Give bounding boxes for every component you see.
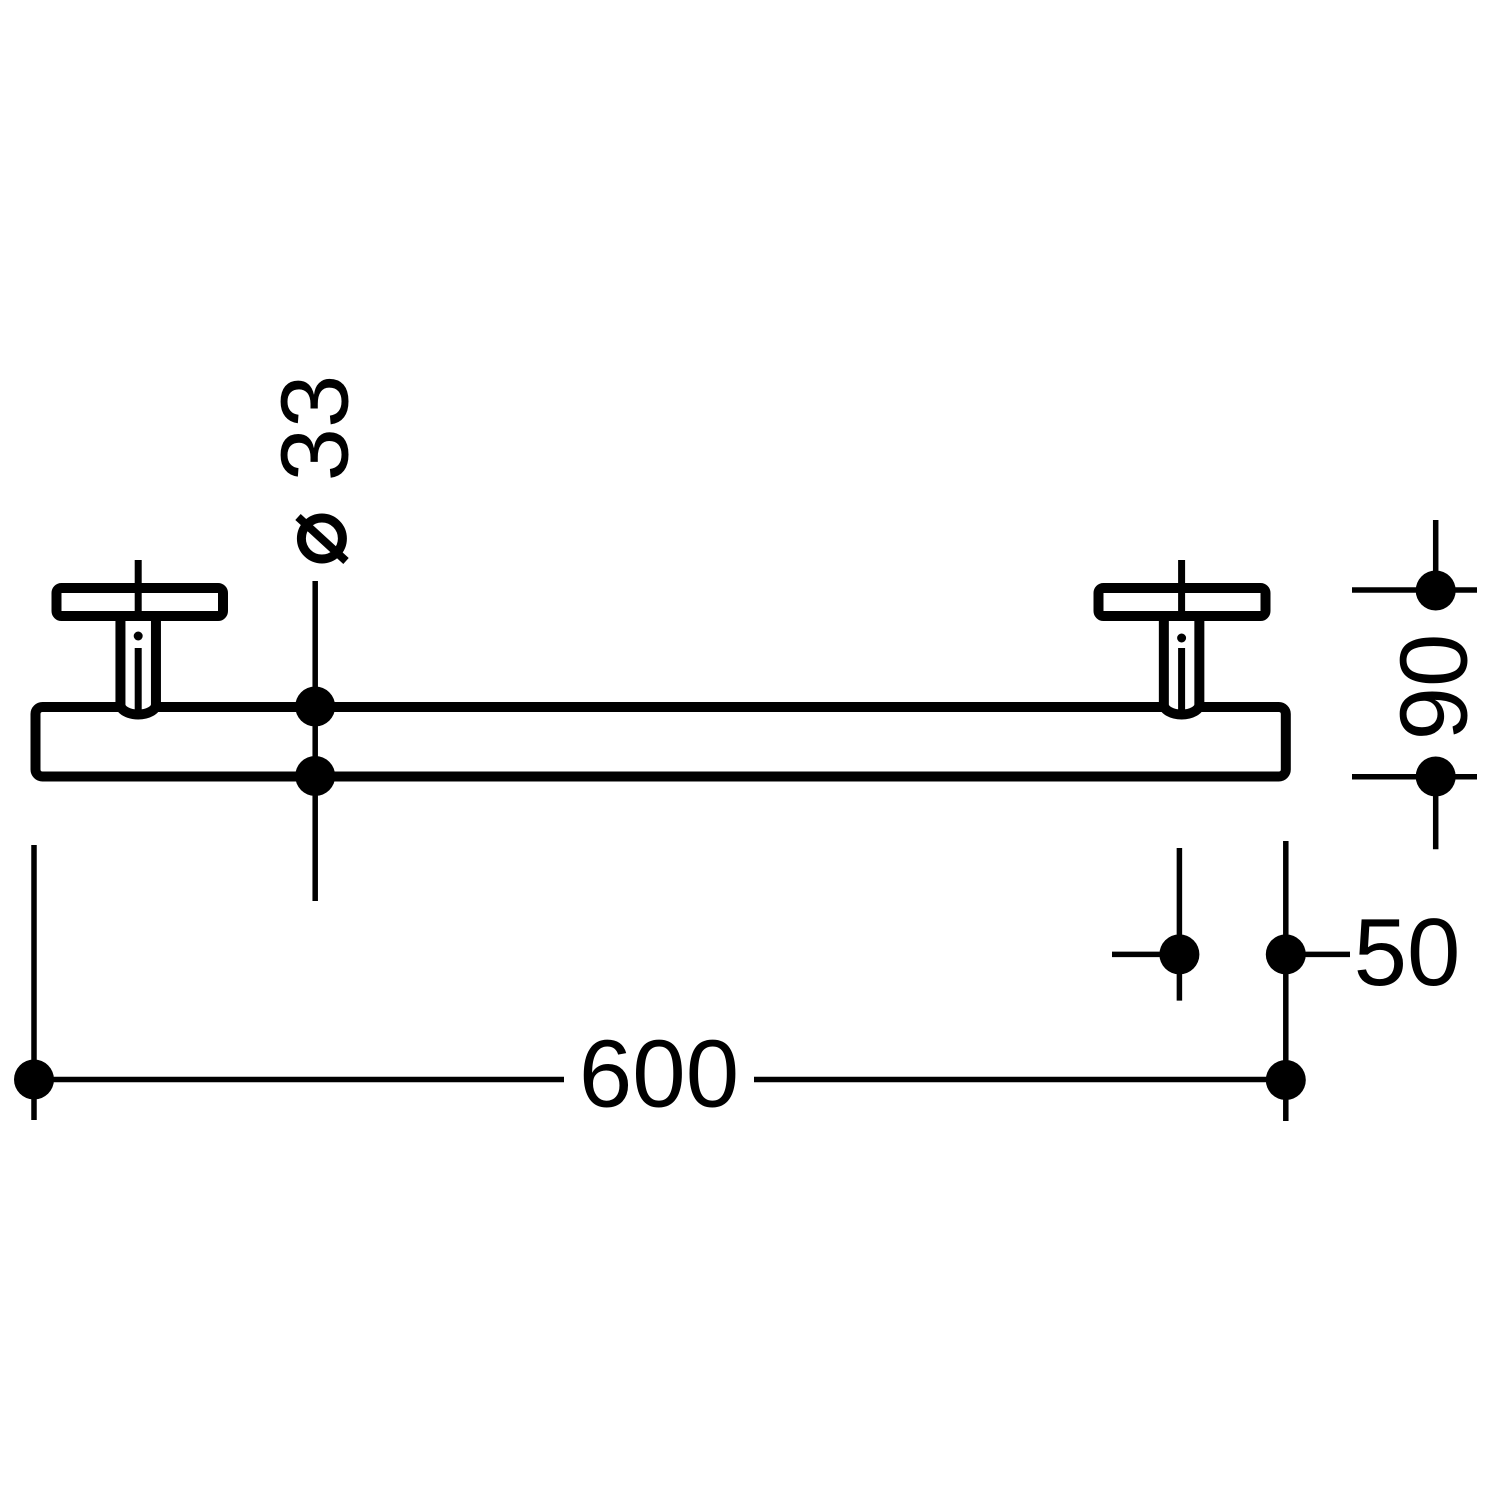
600 dimension left extension line — [31, 845, 37, 1120]
600 dimension left segment — [34, 1077, 564, 1083]
90 dimension upper crossbar — [1352, 587, 1477, 593]
90 dimension lower crossbar — [1352, 774, 1477, 780]
diameter symbol circle — [301, 518, 342, 559]
90 dimension upper stub — [1433, 520, 1439, 590]
50 dimension left dot — [1159, 934, 1199, 974]
600 dimension right segment — [754, 1077, 1286, 1083]
left mount plate — [57, 588, 224, 616]
grab bar body — [36, 707, 1286, 777]
svg-text:90: 90 — [1381, 634, 1488, 741]
left mount centerline upper segment — [135, 560, 142, 614]
left mount stem — [120, 621, 156, 715]
svg-text:33: 33 — [262, 375, 369, 482]
600 dimension left dot — [14, 1060, 54, 1100]
diameter dimension dot at bar top — [295, 687, 335, 727]
50 dimension right horizontal segment — [1286, 952, 1350, 958]
90 dimension upper dot — [1416, 571, 1456, 611]
diameter dimension vertical line — [312, 581, 318, 901]
right mount plate — [1099, 588, 1266, 616]
left mount centerline dot — [134, 632, 143, 641]
90 dimension lower dot — [1416, 757, 1456, 797]
right mount stem — [1164, 621, 1200, 715]
right mount centerline upper segment — [1178, 560, 1185, 614]
600 dimension right dot — [1266, 1060, 1306, 1100]
diameter dimension dot at bar bottom — [295, 756, 335, 796]
50 dimension right dot — [1266, 934, 1306, 974]
90 dimension lower stub — [1433, 777, 1439, 850]
svg-text:600: 600 — [579, 1021, 739, 1128]
right mount centerline dot — [1177, 634, 1186, 643]
50 dimension left horizontal segment — [1112, 952, 1179, 958]
50 dimension right extension line — [1283, 841, 1289, 1121]
50 dimension left extension line — [1177, 848, 1183, 1001]
diameter symbol slash — [298, 517, 346, 561]
svg-text:50: 50 — [1354, 899, 1461, 1006]
right mount centerline lower segment — [1178, 648, 1185, 710]
left mount centerline lower segment — [135, 648, 142, 710]
